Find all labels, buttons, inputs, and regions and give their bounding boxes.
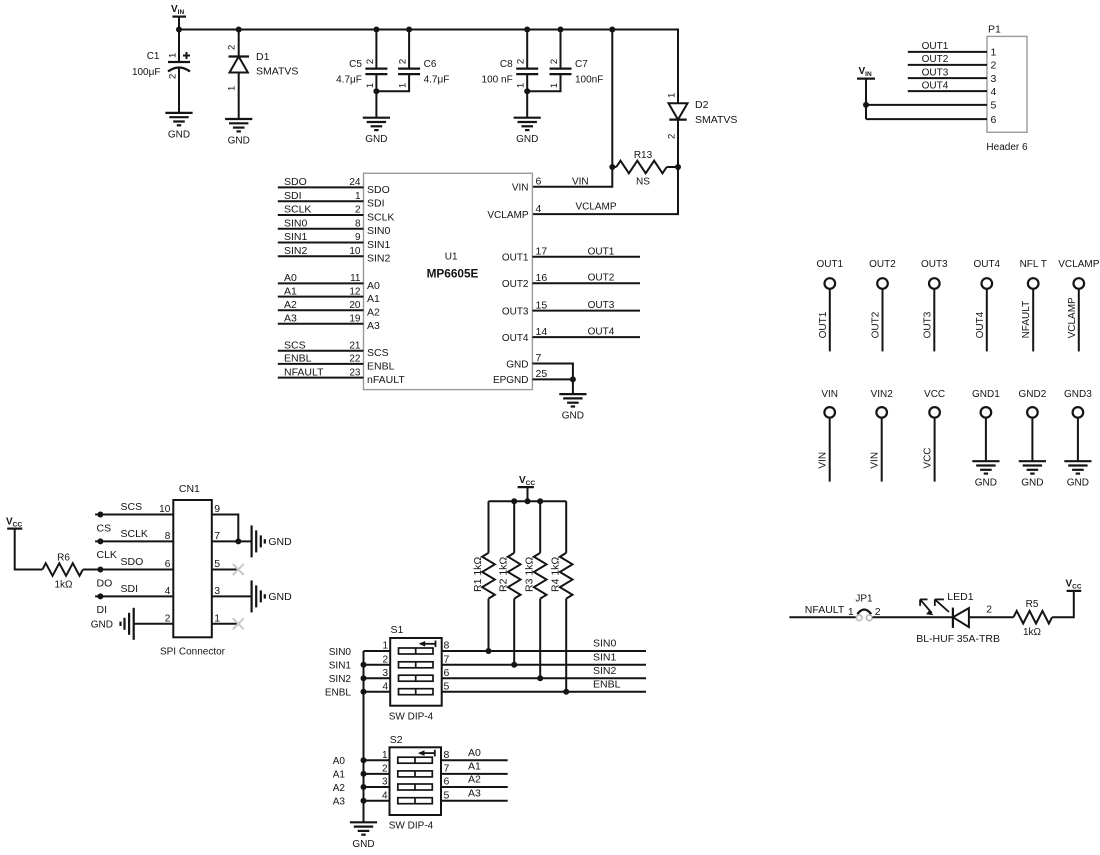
svg-text:SIN0: SIN0 [593,638,617,650]
label net A0 [284,272,297,284]
wire U1 pin 10 SIN2 [278,255,364,257]
svg-text:VIN: VIN [821,389,838,400]
pin number S2-1 [382,750,388,761]
svg-text:100μF: 100μF [132,67,161,78]
resistor R1 [472,501,495,651]
svg-text:A3: A3 [367,320,380,332]
label net OUT3 [588,300,615,311]
svg-text:VCLAMP: VCLAMP [487,210,528,221]
svg-text:VIN: VIN [572,176,589,187]
svg-text:A2: A2 [468,774,481,786]
test point GND1 [972,389,1000,461]
pin number 6 [165,559,171,570]
wire net ENBL [442,691,646,693]
pin number S1-7 [444,654,450,666]
wire U1 pin 24 SDO [278,186,364,188]
pin number 12 [349,286,361,297]
wire net SIN2 [442,677,646,679]
label A0 left [333,756,346,767]
svg-text:P1: P1 [988,24,1001,36]
junction VIN-R13 [609,164,615,170]
svg-text:GND: GND [228,136,250,147]
pin number S1-1 [382,641,388,652]
svg-text:6: 6 [991,114,997,126]
svg-text:S1: S1 [391,624,404,636]
svg-text:1kΩ: 1kΩ [1023,627,1042,638]
svg-text:2: 2 [365,59,376,64]
svg-text:GND: GND [352,839,374,850]
pin name ENBL [367,360,395,372]
svg-text:OUT2: OUT2 [869,259,896,270]
svg-text:JP1: JP1 [855,594,873,605]
pin number 9 [214,503,220,515]
LED LED1 [916,591,1000,645]
label net SIN0 [593,638,617,650]
svg-text:4: 4 [991,86,997,98]
wire S2 pin 1 stub [364,759,390,761]
pin number 9 [355,232,361,243]
test point GND2 [1019,389,1047,461]
pin number 7 [536,352,542,364]
svg-text:8: 8 [165,531,171,542]
wire S1 pin 3 stub [364,677,391,679]
test point OUT1 [816,259,843,352]
svg-text:2: 2 [355,205,361,216]
label net A2 [284,299,297,311]
resistor R4 [550,501,573,692]
svg-text:SIN1: SIN1 [329,661,352,672]
label net ENBL [593,678,621,690]
svg-text:SIN2: SIN2 [284,245,308,257]
svg-text:OUT4: OUT4 [973,259,1000,270]
wire P1 pin 1 OUT1 [908,51,987,53]
wire CN1 pin 3 to ground [212,595,252,597]
diode D1 SMATVS [227,45,299,91]
pin number P1-1 [991,47,997,59]
wire U1 pin 16 OUT2 [532,282,640,284]
power flag VIN at P1 [857,66,875,119]
svg-text:ENBL: ENBL [284,353,312,365]
label net A3 [468,787,481,799]
svg-text:A1: A1 [333,770,346,781]
test point VIN2 [870,389,894,481]
label A1 left [333,770,346,781]
ground under GND3 [1064,461,1091,489]
pin number 14 [536,326,548,338]
ground under C5 [363,118,390,146]
svg-text:7: 7 [444,654,450,666]
pin name A1 [367,293,380,305]
svg-text:4: 4 [536,203,542,215]
ground at CN1 pin 3 [252,580,265,612]
svg-text:A1: A1 [468,761,481,773]
pin number 24 [349,177,361,188]
label GND at CN1 pin 7 [268,536,292,548]
test point OUT3 [921,259,948,352]
wire R6 to CN1 pin 6 [83,569,173,571]
pin name A3 [367,320,380,332]
svg-text:A3: A3 [468,787,481,799]
svg-text:BL-HUF: BL-HUF [916,633,954,645]
wire EPGND to ground [572,379,574,394]
wire NFAULT to JP1 [789,616,855,618]
svg-text:SIN2: SIN2 [367,253,391,265]
pin name SIN1 [367,239,391,251]
switch S2 body [389,734,441,832]
pin number 16 [536,272,548,284]
pin number 10 [349,246,361,257]
ground under U1 [559,394,586,422]
test point NFL T [1020,259,1047,352]
svg-text:6: 6 [444,667,450,679]
wire S1 pin 1 stub [364,650,391,652]
svg-text:SDO: SDO [284,176,307,188]
junction rail-C6 [406,27,412,33]
label net SCLK [284,204,311,216]
test point GND3 [1064,389,1092,461]
pin name SCS [367,347,389,359]
capacitor C1 [132,51,190,79]
capacitor C6 [398,59,450,88]
svg-text:A0: A0 [367,280,380,292]
svg-text:OUT1: OUT1 [922,41,949,52]
junction rail-VCC [525,498,531,504]
junction R2-row [511,662,517,668]
svg-text:8: 8 [444,640,450,652]
label SIN2 left [329,674,352,685]
svg-text:GND: GND [975,478,997,489]
no-connect pin 1 [233,618,244,629]
label GND at CN1 pin 2 [91,620,113,631]
wire U1 pin 7 GND [532,364,573,380]
power flag VCC at R5 [1066,579,1082,591]
junction rail-VIN-drop [609,27,615,33]
junction common-A0 [361,757,367,763]
label net SCLK [121,528,148,540]
svg-text:NFAULT: NFAULT [1021,301,1032,339]
svg-text:VCLAMP: VCLAMP [1058,259,1099,270]
svg-text:SCLK: SCLK [284,204,311,216]
svg-text:GND: GND [516,134,538,145]
capacitor C5 [336,59,387,88]
pin number 15 [536,299,548,311]
junction GND-EPGND [570,376,576,382]
svg-text:OUT1: OUT1 [502,253,529,264]
wire S1 pin 2 stub [364,664,391,666]
svg-text:7: 7 [444,763,450,775]
wire U1 pin 22 ENBL [278,363,364,365]
wire net A0 [442,759,508,761]
test point OUT2 [869,259,896,352]
wire U1 pin 20 A2 [278,309,364,311]
svg-text:R2 1kΩ: R2 1kΩ [498,557,510,592]
wire U1 pin 1 SDI [278,200,364,202]
svg-text:LED1: LED1 [947,591,973,603]
junction rail-D1 [236,27,242,33]
wire rail down to VIN node [611,30,613,168]
pin number S1-3 [382,668,388,679]
svg-text:OUT3: OUT3 [921,259,948,270]
svg-text:SMATVS: SMATVS [695,114,737,126]
label net SIN0 [284,217,308,229]
svg-text:4.7μF: 4.7μF [336,75,362,86]
pin name SDI [367,198,385,210]
svg-text:D1: D1 [256,51,270,63]
label net SIN1 [593,651,617,663]
svg-text:9: 9 [214,503,220,515]
label net OUT4 at P1 [922,80,949,91]
svg-text:100 nF: 100 nF [482,75,513,86]
svg-text:SIN0: SIN0 [367,225,391,237]
label net OUT1 [588,246,615,257]
svg-text:VIN2: VIN2 [871,389,894,400]
wire rail to D2 [612,30,678,104]
pin number 21 [349,341,361,352]
test point OUT4 [973,259,1000,352]
svg-text:R4 1kΩ: R4 1kΩ [550,557,562,592]
resistor R13 [612,150,678,188]
svg-text:R13: R13 [634,150,653,161]
svg-text:SCS: SCS [121,501,143,513]
svg-text:OUT2: OUT2 [588,273,615,284]
ground under C8 [514,118,541,146]
pin number 2 of LED1 [986,605,992,616]
svg-text:2: 2 [875,606,881,618]
svg-text:SDI: SDI [284,190,302,202]
wire C5 bottom [375,74,377,91]
svg-text:C6: C6 [424,59,437,70]
svg-text:OUT4: OUT4 [975,311,986,338]
pin number S2-4 [382,790,388,801]
label net A0 [468,747,481,759]
junction rail-C1 [176,27,182,33]
label net VCLAMP [575,202,616,213]
svg-text:NFAULT: NFAULT [805,604,845,616]
wire ground to CN1 pin 2 [134,623,174,625]
pin number S2-5 [444,789,450,801]
wire P1 pin 4 OUT4 [908,90,987,92]
svg-text:19: 19 [349,313,361,324]
wire S2 pin 3 stub [364,786,390,788]
junction C8-C7 [524,88,530,94]
pin number 2 [355,205,361,216]
svg-text:CN1: CN1 [179,483,200,495]
pin number 4 [165,586,171,597]
label net SIN1 [284,231,308,243]
svg-text:20: 20 [349,300,361,311]
svg-text:1: 1 [991,47,997,59]
svg-text:1: 1 [355,191,361,202]
svg-text:C7: C7 [575,59,588,70]
wire VCC pullup rail [489,500,567,502]
svg-text:25: 25 [536,368,548,380]
svg-text:SDO: SDO [121,556,144,568]
wire rail to C7 [560,30,562,69]
junction rail-C8 [524,27,530,33]
label net NFAULT at JP1 [805,604,845,616]
wire C5 junction to ground [375,91,377,117]
svg-text:2: 2 [165,614,171,625]
svg-text:SDI: SDI [367,198,385,210]
label net SDO [284,176,307,188]
svg-text:1: 1 [848,607,854,618]
junction rail-C7 [558,27,564,33]
wire CN1 pin 5 stub [212,569,239,571]
switch S1 body [389,624,442,723]
pin name SDO [367,184,390,196]
junction rail-C5 [373,27,379,33]
resistor R6 [42,553,83,591]
label A2 left [333,783,346,794]
svg-text:1: 1 [214,613,220,625]
pin name A0 [367,280,380,292]
svg-text:21: 21 [349,341,361,352]
ground under D1 [225,119,252,147]
pin number S2-6 [444,776,450,788]
svg-text:SDO: SDO [367,184,390,196]
pin number S1-2 [382,655,388,666]
svg-text:VCLAMP: VCLAMP [1067,297,1078,338]
pin number P1-3 [991,73,997,85]
junction common-A3 [361,798,367,804]
svg-text:A3: A3 [333,797,346,808]
wire U1 pin 11 A0 [278,282,364,284]
pin number 19 [349,313,361,324]
diode D2 SMATVS [667,93,738,139]
svg-text:SCLK: SCLK [367,211,394,223]
pin name OUT3 [502,306,529,317]
svg-text:GND1: GND1 [972,389,1000,400]
pin name SCLK [367,211,394,223]
junction SCLK net [97,538,103,544]
junction rail-R2 [511,498,517,504]
svg-text:NFAULT: NFAULT [284,366,324,378]
svg-text:C1: C1 [147,51,160,62]
svg-text:SCS: SCS [367,347,389,359]
ground at CN1 pin 7 [252,525,265,557]
svg-text:OUT2: OUT2 [502,279,529,290]
svg-text:VCLAMP: VCLAMP [575,202,616,213]
junction D2-R13 [675,164,681,170]
pin name OUT1 [502,253,529,264]
wire switch common to ground [363,651,365,822]
label CS [97,522,112,534]
wire U1 pin 19 A3 [278,323,364,325]
wire net A1 [442,773,508,775]
wire U1 pin 25 EPGND [532,378,573,380]
wire SCS to CN1 pin 10 [95,514,173,516]
svg-text:2: 2 [227,45,238,50]
svg-text:1: 1 [398,83,409,88]
svg-text:3: 3 [991,73,997,85]
pin name OUT2 [502,279,529,290]
junction common-SIN2 [361,675,367,681]
svg-text:GND: GND [268,591,292,603]
pin number S2-2 [382,764,388,775]
svg-text:OUT3: OUT3 [502,306,529,317]
label net SDI [284,190,302,202]
ground under GND1 [972,461,999,489]
svg-text:GND: GND [268,536,292,548]
wire U1 pin 14 OUT4 [532,336,640,338]
svg-text:S2: S2 [390,734,403,746]
svg-text:12: 12 [349,286,361,297]
wire VIN to P1 pin 6 [866,118,987,120]
wire U1 pin 8 SIN0 [278,228,364,230]
wire P1 pin 3 OUT3 [908,77,987,79]
wire U1 pin 15 OUT3 [532,310,640,312]
svg-text:1: 1 [227,86,238,91]
svg-text:GND3: GND3 [1064,389,1092,400]
svg-text:OUT2: OUT2 [922,54,949,65]
svg-text:nFAULT: nFAULT [367,374,405,386]
junction common-ENBL [361,689,367,695]
pin number S1-5 [444,680,450,692]
pin number S2-8 [444,749,450,761]
pin number 8 [165,531,171,542]
svg-text:7: 7 [536,352,542,364]
label net SIN2 [284,245,308,257]
svg-text:OUT3: OUT3 [922,67,949,78]
svg-text:5: 5 [444,680,450,692]
svg-text:MP6605E: MP6605E [427,266,479,280]
wire U1 pin 2 SCLK [278,214,364,216]
svg-text:CS: CS [97,522,112,534]
label net SDO [121,556,144,568]
junction R3-row [537,675,543,681]
label ENBL left [325,688,352,699]
ground under GND2 [1019,461,1046,489]
test point VCC [923,389,946,481]
junction SCS net [97,512,103,518]
svg-text:SIN2: SIN2 [329,674,352,685]
svg-text:9: 9 [355,232,361,243]
pin number S1-4 [382,681,388,692]
svg-text:NFL T: NFL T [1020,259,1047,270]
svg-text:4.7μF: 4.7μF [424,75,450,86]
svg-text:OUT4: OUT4 [588,327,615,338]
svg-text:SPI Connector: SPI Connector [160,647,226,658]
svg-text:10: 10 [349,246,361,257]
svg-text:VIN: VIN [818,452,829,469]
connector P1 body [986,24,1028,154]
pin name SIN2 [367,253,391,265]
pin name SIN0 [367,225,391,237]
pin number P1-6 [991,114,997,126]
svg-text:A0: A0 [284,272,297,284]
pin name VCLAMP [487,210,528,221]
wire D1 to ground [238,73,240,120]
svg-text:SCS: SCS [284,340,306,352]
svg-text:A2: A2 [333,783,346,794]
junction common-A2 [361,784,367,790]
label SIN1 left [329,661,352,672]
wire rail to C8 [526,30,528,69]
power flag VCC at SPI [6,517,22,529]
wire U1 pin 17 OUT1 [532,256,640,258]
power flag VCC pullups [518,475,536,501]
svg-text:R1 1kΩ: R1 1kΩ [472,557,484,592]
wire SDI to CN1 pin 4 [95,595,173,597]
svg-text:A1: A1 [284,285,297,297]
wire CN1 pin 9 to pin 7 net [212,515,239,542]
svg-text:CLK: CLK [97,549,117,561]
pin number 6 [536,176,542,188]
svg-text:2: 2 [986,605,992,616]
label net A2 [468,774,481,786]
svg-text:7: 7 [214,530,220,542]
label A3 left [333,797,346,808]
